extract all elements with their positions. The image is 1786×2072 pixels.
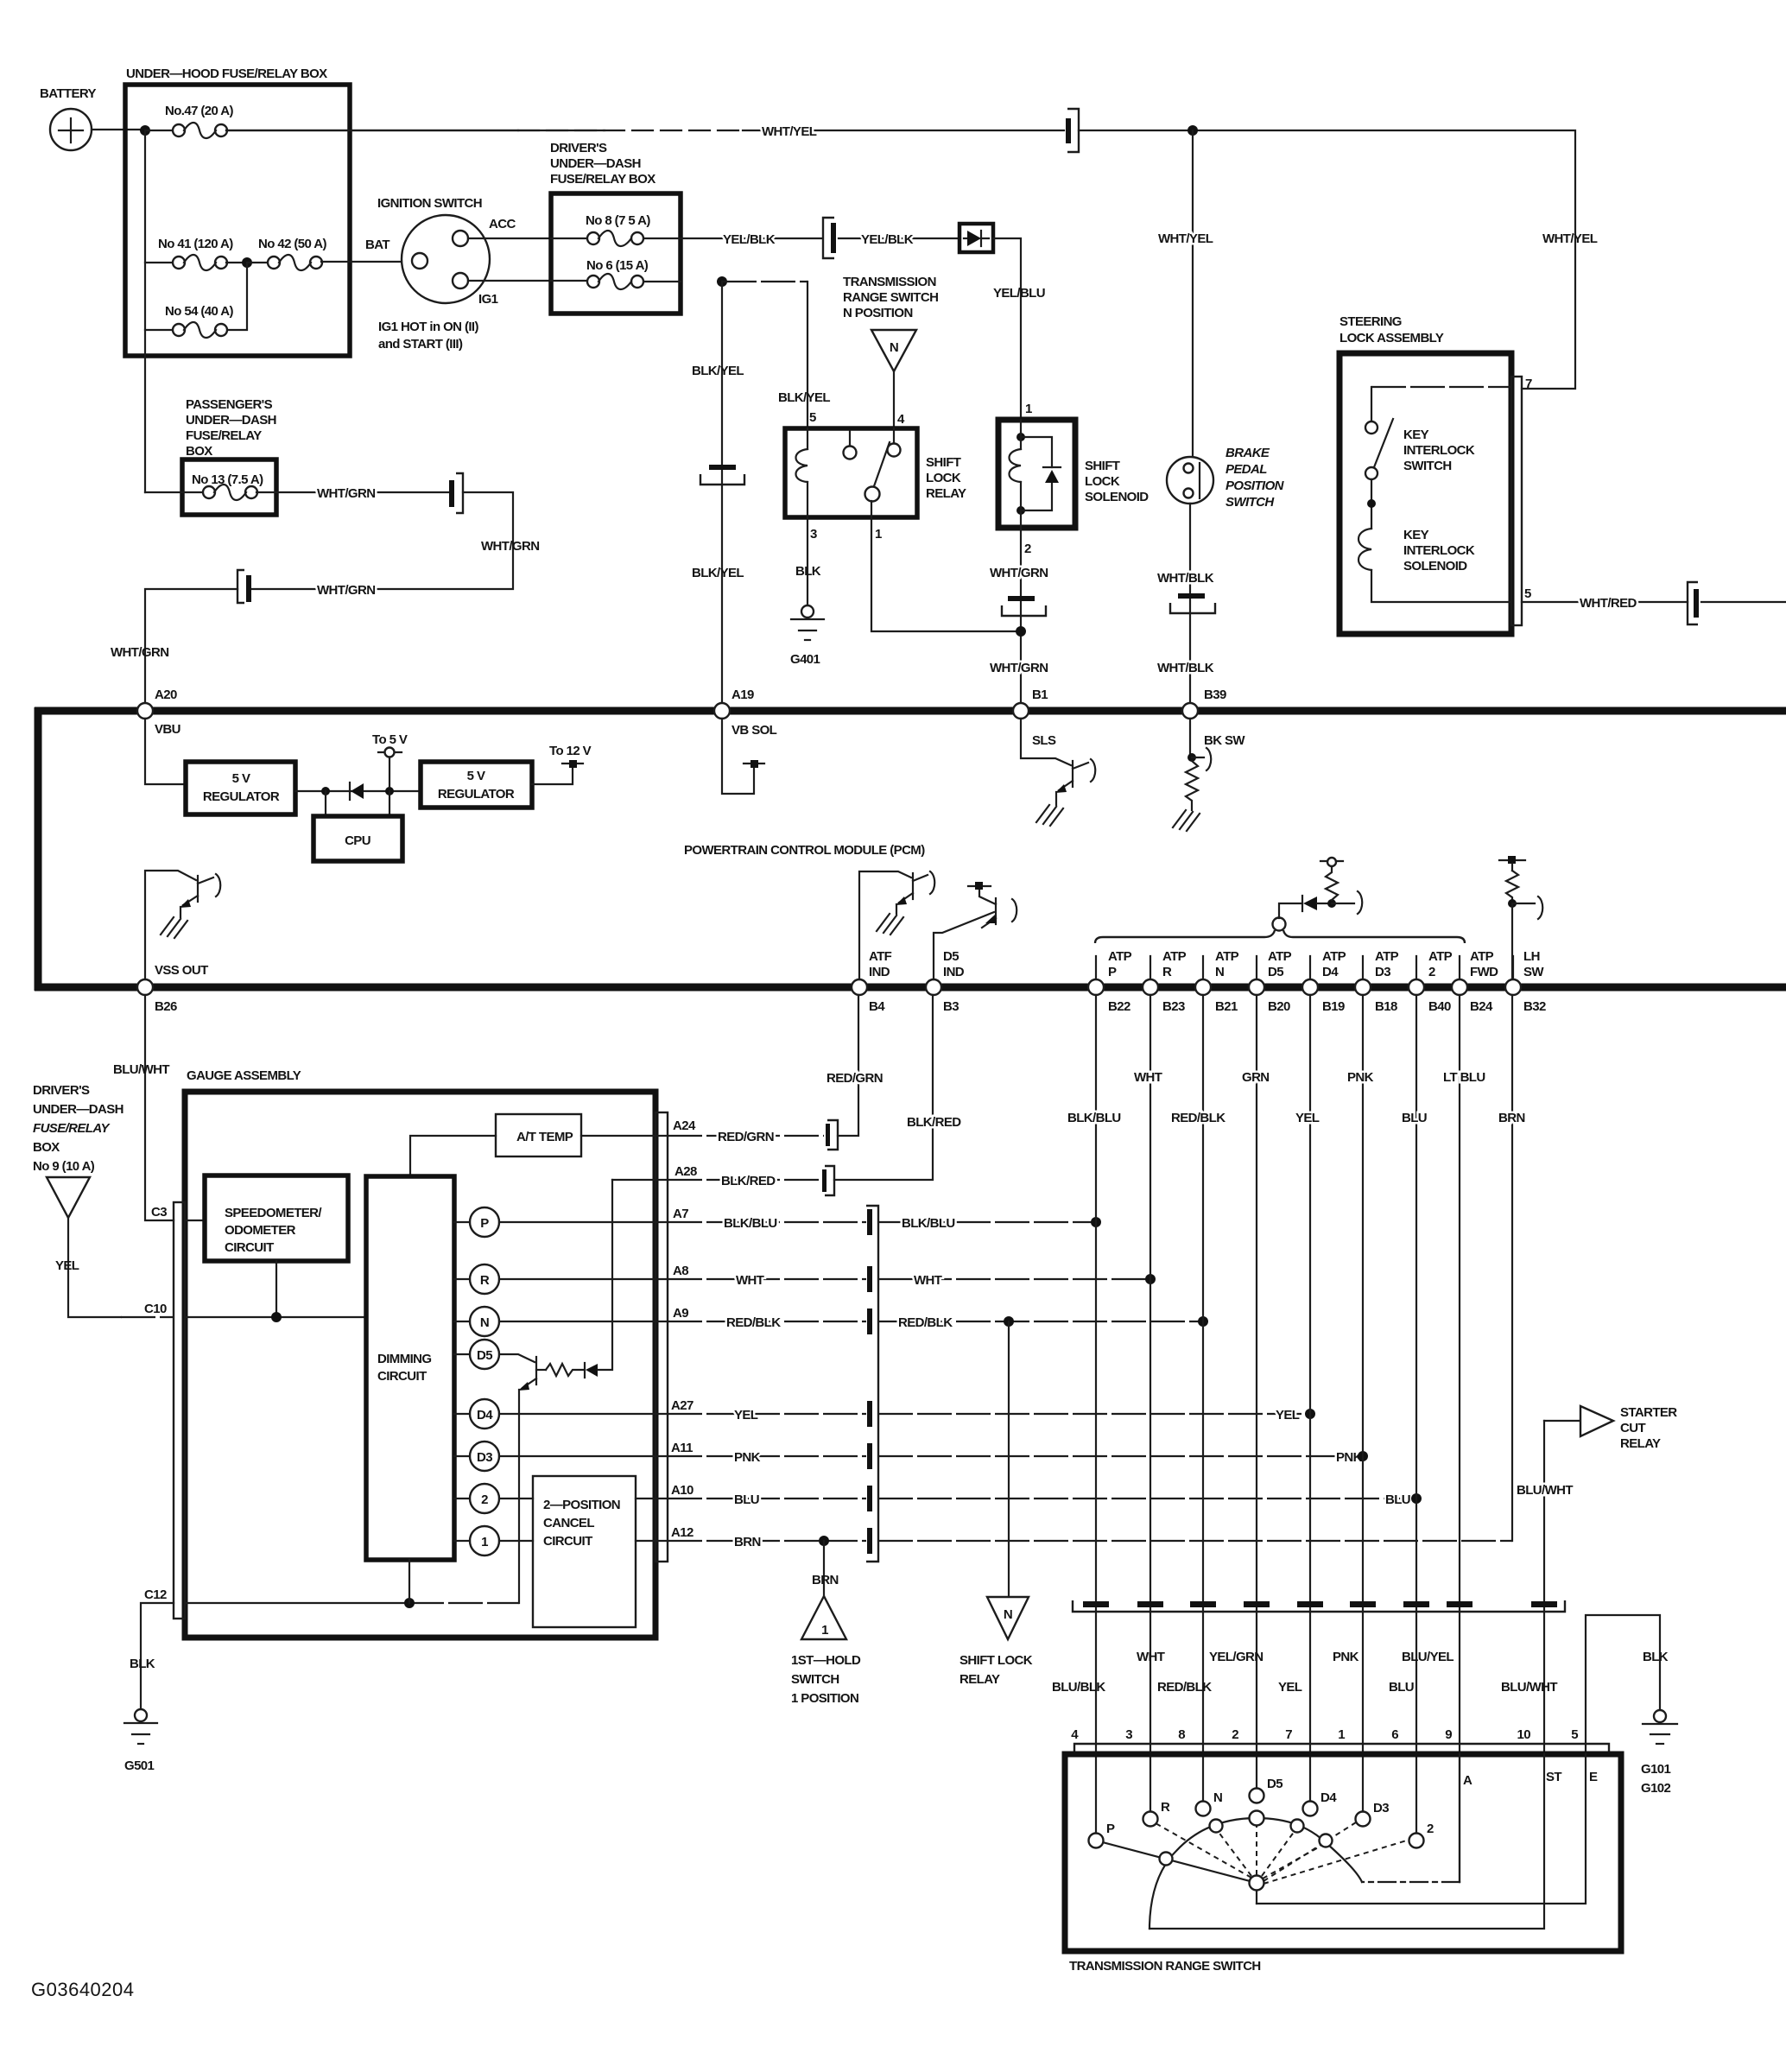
svg-text:SWITCH: SWITCH — [1403, 459, 1452, 473]
svg-text:GRN: GRN — [1242, 1070, 1270, 1085]
svg-text:ATP: ATP — [1470, 949, 1494, 964]
ATP/B2x pin nodes on lower bus — [1088, 956, 1521, 995]
wire VBU to 5V regulator — [145, 719, 186, 784]
svg-text:PNK: PNK — [1347, 1070, 1374, 1085]
shift lock relay box — [785, 428, 966, 517]
wire A24 RED/GRN row — [668, 1135, 824, 1137]
fuse No 13 (7.5 A) — [145, 472, 263, 500]
svg-text:YEL/GRN: YEL/GRN — [1209, 1650, 1263, 1664]
svg-text:SLS: SLS — [1032, 733, 1056, 748]
svg-text:A10: A10 — [671, 1483, 693, 1498]
svg-text:ATP: ATP — [1428, 949, 1453, 964]
svg-text:VSS OUT: VSS OUT — [155, 963, 208, 978]
TRS rotor arm (P position) — [1096, 1841, 1257, 1883]
PCM left edge bar — [35, 707, 42, 991]
svg-text:DIMMING: DIMMING — [377, 1352, 431, 1366]
node: junction relay pin1 / WHT-GRN — [1016, 626, 1026, 637]
wire WHT/GRN row 1 — [256, 491, 448, 493]
ground G101/G102 — [1641, 1710, 1677, 1796]
svg-text:BLU: BLU — [734, 1492, 759, 1507]
svg-text:B26: B26 — [155, 999, 177, 1014]
svg-text:INTERLOCK: INTERLOCK — [1403, 543, 1475, 558]
connector in WHT/BLK wire — [1170, 593, 1215, 613]
svg-text:8: 8 — [1178, 1727, 1185, 1742]
wire BLK/YEL to relay pin 5 — [807, 282, 808, 428]
svg-text:5: 5 — [1524, 586, 1531, 601]
svg-text:D3: D3 — [477, 1450, 492, 1465]
svg-text:WHT/GRN: WHT/GRN — [317, 486, 375, 501]
wire regulator to diode — [295, 790, 421, 792]
diode D (in-line) for shift lock — [959, 224, 993, 252]
speedometer/odometer circuit — [205, 1175, 348, 1261]
node A20 VBU — [137, 703, 153, 719]
node: IG1 junction — [717, 276, 727, 287]
TRS contact arc — [1149, 1818, 1362, 1929]
battery B+ — [40, 86, 97, 150]
svg-text:ODOMETER: ODOMETER — [225, 1223, 296, 1238]
ignition switch — [365, 196, 516, 352]
svg-text:SHIFT: SHIFT — [1085, 459, 1120, 473]
svg-text:ATP: ATP — [1215, 949, 1239, 964]
svg-text:IND: IND — [869, 965, 890, 979]
svg-text:D5: D5 — [943, 949, 959, 964]
svg-text:To 5 V: To 5 V — [372, 732, 408, 747]
connector in A28 row — [825, 1166, 834, 1195]
svg-text:YEL: YEL — [734, 1408, 758, 1423]
svg-text:RED/BLK: RED/BLK — [1171, 1111, 1225, 1125]
transistor Q2 (ATF IND driver) — [859, 871, 934, 979]
svg-text:BRN: BRN — [812, 1573, 839, 1587]
svg-text:WHT/BLK: WHT/BLK — [1157, 571, 1214, 586]
fuse No 8 (7 5 A) — [551, 213, 681, 246]
svg-text:A: A — [1463, 1773, 1472, 1788]
svg-text:7: 7 — [1285, 1727, 1292, 1742]
svg-text:D4: D4 — [1322, 965, 1339, 979]
svg-text:1: 1 — [1338, 1727, 1345, 1742]
TRS pin numbers — [1071, 1727, 1578, 1742]
svg-text:UNDER—DASH: UNDER—DASH — [186, 413, 276, 428]
node A19 VB SOL — [714, 703, 730, 719]
svg-text:BLK/BLU: BLK/BLU — [1067, 1111, 1121, 1125]
ground G501 — [124, 1709, 157, 1773]
svg-text:G101: G101 — [1641, 1762, 1671, 1777]
relay pin 4 contact — [888, 444, 901, 457]
svg-text:BK SW: BK SW — [1204, 733, 1245, 748]
wire B32 LH SW vertical — [1511, 995, 1513, 1541]
indicator D3 — [470, 1442, 499, 1471]
node B3 D5 IND — [926, 979, 941, 995]
svg-text:FUSE/RELAY: FUSE/RELAY — [186, 428, 262, 443]
svg-text:G401: G401 — [790, 652, 820, 667]
svg-text:TRANSMISSION: TRANSMISSION — [843, 275, 936, 289]
svg-text:2: 2 — [1428, 965, 1435, 979]
wire WHT/RED from pin 5 — [1522, 601, 1688, 603]
svg-text:YEL: YEL — [1295, 1111, 1320, 1125]
svg-text:BLK: BLK — [1643, 1650, 1669, 1664]
svg-text:WHT/GRN: WHT/GRN — [317, 583, 375, 598]
svg-text:WHT/RED: WHT/RED — [1580, 596, 1637, 611]
wire A12 BRN row — [668, 1540, 866, 1542]
TRS rotor common centre — [1256, 1890, 1257, 1904]
wire C12 ground row — [185, 1602, 409, 1604]
svg-text:A/T TEMP: A/T TEMP — [516, 1130, 573, 1144]
inline connector row above TRS — [1073, 1600, 1565, 1612]
svg-text:3: 3 — [1125, 1727, 1132, 1742]
svg-text:RELAY: RELAY — [926, 486, 966, 501]
fuse feed triangle (No 9) — [47, 1177, 90, 1218]
svg-text:BLK/RED: BLK/RED — [721, 1174, 776, 1188]
svg-text:UNDER—DASH: UNDER—DASH — [550, 156, 641, 171]
wire 1st-hold switch drop — [823, 1541, 825, 1596]
relay switch arm — [874, 442, 890, 486]
node: junction fuse41/42 — [226, 262, 247, 263]
connector in WHT/GRN wire — [1002, 596, 1046, 616]
svg-text:BLU/WHT: BLU/WHT — [1501, 1680, 1557, 1695]
svg-text:N: N — [1213, 1790, 1222, 1805]
wire A27 YEL row — [668, 1413, 866, 1415]
svg-text:KEY: KEY — [1403, 528, 1429, 542]
wire A7 BLK/BLU row — [668, 1221, 866, 1223]
connector in WHT/RED wire — [1688, 582, 1699, 624]
svg-text:ATP: ATP — [1162, 949, 1187, 964]
svg-text:IGNITION SWITCH: IGNITION SWITCH — [377, 196, 482, 211]
svg-text:WHT/GRN: WHT/GRN — [990, 661, 1048, 675]
5 V regulator 1 — [186, 762, 295, 814]
wire A28 BLK/RED row — [668, 1179, 820, 1181]
fuse No 6 (15 A) — [551, 258, 681, 289]
transistor Q5 (dimming) with resistor and diode — [499, 1180, 612, 1603]
indicator N — [470, 1307, 499, 1336]
svg-text:BAT: BAT — [365, 238, 389, 252]
svg-text:BLK/YEL: BLK/YEL — [692, 364, 744, 378]
svg-text:YEL/BLK: YEL/BLK — [723, 232, 776, 247]
svg-text:PEDAL: PEDAL — [1225, 462, 1267, 477]
svg-text:WHT: WHT — [736, 1273, 764, 1288]
wire C12 to G501 — [141, 1603, 174, 1709]
svg-text:BLU/YEL: BLU/YEL — [1402, 1650, 1453, 1664]
fuse No 54 (40 A) — [145, 304, 234, 338]
connector in YEL/BLK row — [823, 218, 836, 258]
svg-text:G501: G501 — [124, 1758, 155, 1773]
svg-text:IG1: IG1 — [478, 292, 498, 307]
pull-up resistor at LH SW (B32) — [1499, 856, 1542, 979]
svg-text:5 V: 5 V — [232, 771, 250, 786]
svg-text:BOX: BOX — [33, 1140, 60, 1155]
gauge assembly box — [174, 1068, 668, 1638]
svg-text:BLK/RED: BLK/RED — [907, 1115, 961, 1130]
transistor Q4 (SLS driver) — [1021, 719, 1095, 826]
connector in BLK/YEL wire — [700, 465, 744, 485]
steering lock assembly — [1339, 314, 1522, 634]
wire WHT/YEL down to brake pedal switch — [1192, 130, 1194, 457]
wire E pin from ground row — [1586, 1615, 1660, 1754]
wire ACC to driver's box — [468, 238, 551, 239]
svg-text:ACC: ACC — [489, 217, 516, 231]
svg-text:LT BLU: LT BLU — [1443, 1070, 1485, 1085]
wire WHT/BLK brake switch to B39 — [1189, 504, 1191, 703]
svg-text:No 41 (120 A): No 41 (120 A) — [158, 237, 233, 251]
connector in WHT/YEL row — [1066, 109, 1079, 152]
wire WHT/YEL top row — [226, 130, 1064, 131]
svg-text:G03640204: G03640204 — [31, 1979, 135, 2000]
wire WHT/GRN corner down — [251, 492, 513, 589]
wire colour labels on verticals — [1067, 1070, 1525, 1125]
TRS contact circles — [1089, 1777, 1434, 1891]
svg-text:D3: D3 — [1373, 1801, 1389, 1815]
svg-text:STEERING: STEERING — [1339, 314, 1402, 329]
passenger's under-dash fuse/relay box — [182, 397, 276, 515]
TRS dashed fan from common centre — [1156, 1822, 1409, 1884]
svg-text:WHT: WHT — [914, 1273, 942, 1288]
svg-text:RELAY: RELAY — [1620, 1436, 1661, 1451]
wire A28 up to B3 — [834, 995, 933, 1180]
wire BLU/WHT B26 to C3 — [145, 995, 174, 1220]
svg-text:4: 4 — [1071, 1727, 1079, 1742]
svg-text:1: 1 — [821, 1623, 828, 1638]
wire relay pin1 down to WHT/GRN junction — [871, 517, 1021, 631]
TRS wire colour labels — [1052, 1650, 1669, 1695]
relay coil — [796, 428, 808, 517]
svg-text:VB SOL: VB SOL — [731, 723, 777, 738]
svg-text:P: P — [1108, 965, 1117, 979]
svg-text:SWITCH: SWITCH — [791, 1672, 839, 1687]
svg-text:1 POSITION: 1 POSITION — [791, 1691, 858, 1706]
svg-text:IG1 HOT in ON (II): IG1 HOT in ON (II) — [378, 320, 478, 334]
svg-text:ATP: ATP — [1268, 949, 1292, 964]
svg-text:D4: D4 — [1320, 1790, 1337, 1805]
svg-text:LOCK ASSEMBLY: LOCK ASSEMBLY — [1339, 331, 1444, 345]
wire diode to solenoid pin 1 — [993, 238, 1021, 420]
svg-text:BLK/YEL: BLK/YEL — [692, 566, 744, 580]
wire BLU/WHT starter cut to TRS pin 10 — [1543, 1421, 1545, 1754]
transmission range switch box — [1065, 1744, 1621, 1974]
svg-text:D5: D5 — [477, 1348, 492, 1363]
dimming circuit box — [366, 1176, 454, 1560]
stub dimming box to C12 row — [408, 1560, 410, 1603]
svg-text:BLU: BLU — [1389, 1680, 1414, 1695]
svg-text:B40: B40 — [1428, 999, 1451, 1014]
wire solenoid pin 2 WHT/GRN down to B1 — [1020, 528, 1022, 703]
svg-text:No 6 (15 A): No 6 (15 A) — [586, 258, 649, 273]
node B4 ATF IND — [852, 979, 867, 995]
svg-text:WHT: WHT — [1134, 1070, 1162, 1085]
TRS A dash-dot link — [1362, 1881, 1460, 1883]
2-position cancel circuit box — [533, 1476, 636, 1627]
node B26 VSS OUT — [137, 979, 153, 995]
svg-text:BLU/WHT: BLU/WHT — [1517, 1483, 1573, 1498]
svg-text:YEL: YEL — [1278, 1680, 1302, 1695]
CPU — [313, 791, 402, 861]
svg-text:TRANSMISSION RANGE SWITCH: TRANSMISSION RANGE SWITCH — [1069, 1959, 1261, 1974]
svg-text:B21: B21 — [1215, 999, 1238, 1014]
node: WHT/YEL junction above brake switch — [1187, 125, 1198, 136]
svg-text:7: 7 — [1525, 377, 1532, 391]
svg-text:6: 6 — [1391, 1727, 1398, 1742]
indicator D4 — [470, 1399, 499, 1429]
shift lock solenoid box — [998, 420, 1149, 528]
svg-text:BOX: BOX — [186, 444, 212, 459]
svg-text:BLU/WHT: BLU/WHT — [113, 1062, 169, 1077]
svg-text:2: 2 — [481, 1492, 488, 1507]
svg-text:B32: B32 — [1523, 999, 1546, 1014]
connector in WHT/GRN row 2 — [237, 570, 251, 603]
driver's under-dash fuse/relay box — [550, 141, 681, 314]
A/T TEMP box — [496, 1114, 581, 1156]
svg-text:C10: C10 — [144, 1302, 167, 1316]
transistor Q1 (VSS OUT driver) — [145, 871, 220, 979]
svg-text:ATF: ATF — [869, 949, 892, 964]
diode (between regulators) — [350, 783, 364, 800]
fuse No.47 (20 A) — [145, 104, 234, 138]
svg-text:WHT: WHT — [1137, 1650, 1165, 1664]
svg-text:N: N — [1004, 1607, 1012, 1622]
node B1 SLS — [1013, 703, 1029, 719]
svg-text:CANCEL: CANCEL — [543, 1516, 594, 1530]
wire C10 row inside — [185, 1316, 366, 1318]
fuse No 41 (120 A) — [145, 237, 233, 270]
svg-text:CIRCUIT: CIRCUIT — [377, 1369, 427, 1384]
svg-text:WHT/GRN: WHT/GRN — [990, 566, 1048, 580]
relay fixed contact (center) — [844, 447, 857, 459]
svg-text:5: 5 — [1571, 1727, 1578, 1742]
svg-text:1: 1 — [875, 527, 882, 542]
svg-text:STARTER: STARTER — [1620, 1405, 1677, 1420]
svg-text:1ST—HOLD: 1ST—HOLD — [791, 1653, 861, 1668]
svg-text:A19: A19 — [731, 687, 754, 702]
PCM bus bar top (A row) — [35, 707, 1786, 715]
wire A10 BLU row — [668, 1498, 866, 1499]
svg-text:DRIVER'S: DRIVER'S — [550, 141, 607, 155]
svg-text:D5: D5 — [1268, 965, 1283, 979]
svg-text:BLU/BLK: BLU/BLK — [1052, 1680, 1105, 1695]
key interlock switch — [1365, 387, 1511, 479]
svg-text:A27: A27 — [671, 1398, 693, 1413]
wire A/T temp to dimming circuit — [410, 1136, 496, 1176]
svg-text:CPU: CPU — [345, 833, 370, 848]
svg-text:A7: A7 — [673, 1207, 688, 1221]
svg-text:BLK/YEL: BLK/YEL — [778, 390, 830, 405]
svg-text:WHT/GRN: WHT/GRN — [481, 539, 539, 554]
node: speedometer stub to C10 — [275, 1261, 277, 1317]
svg-text:A24: A24 — [673, 1118, 696, 1133]
svg-text:RED/BLK: RED/BLK — [898, 1315, 953, 1330]
svg-text:B24: B24 — [1470, 999, 1493, 1014]
svg-text:9: 9 — [1445, 1727, 1452, 1742]
To 5 V tap — [372, 732, 408, 787]
5 V regulator 2 — [421, 762, 532, 808]
solenoid internals: coil + diode loop — [1010, 420, 1061, 528]
svg-text:N: N — [480, 1315, 489, 1330]
brake pedal position switch — [1167, 446, 1285, 510]
svg-text:N: N — [1215, 965, 1224, 979]
svg-text:LOCK: LOCK — [926, 471, 961, 485]
svg-text:N: N — [890, 340, 898, 355]
relay moving contact / pin 1 — [865, 487, 880, 502]
ground G401 — [790, 605, 824, 667]
svg-text:B39: B39 — [1204, 687, 1226, 702]
wire vertical bus inside box — [144, 130, 146, 492]
svg-text:E: E — [1589, 1770, 1598, 1784]
wire C3 into box — [185, 1220, 205, 1221]
svg-text:KEY: KEY — [1403, 428, 1429, 442]
wire A8 WHT row — [668, 1278, 866, 1280]
wire YEL to C10 — [68, 1218, 121, 1317]
shift lock relay triangle — [959, 1597, 1033, 1687]
svg-text:No.47 (20 A): No.47 (20 A) — [165, 104, 234, 118]
svg-text:BRAKE: BRAKE — [1225, 446, 1270, 460]
svg-text:A11: A11 — [671, 1441, 693, 1455]
wire fuse54 right leg up to junction — [226, 263, 247, 330]
svg-text:YEL/BLK: YEL/BLK — [861, 232, 914, 247]
svg-text:FWD: FWD — [1470, 965, 1498, 979]
pull-up network with diode at ATP group — [1279, 858, 1362, 918]
resistor pulldown at B39 — [1173, 719, 1211, 831]
svg-text:2: 2 — [1024, 542, 1031, 556]
svg-text:RELAY: RELAY — [959, 1672, 1000, 1687]
svg-text:WHT/YEL: WHT/YEL — [1542, 231, 1598, 246]
svg-text:PNK: PNK — [734, 1450, 761, 1465]
svg-text:and START (III): and START (III) — [378, 337, 463, 352]
svg-text:BLU: BLU — [1402, 1111, 1427, 1125]
svg-text:RED/BLK: RED/BLK — [1157, 1680, 1212, 1695]
svg-text:GAUGE ASSEMBLY: GAUGE ASSEMBLY — [187, 1068, 301, 1083]
svg-text:ATP: ATP — [1108, 949, 1132, 964]
svg-text:10: 10 — [1517, 1727, 1531, 1742]
svg-text:WHT/GRN: WHT/GRN — [111, 645, 168, 660]
svg-text:BLK: BLK — [795, 564, 821, 579]
svg-text:WHT/YEL: WHT/YEL — [762, 124, 817, 139]
VB SOL hook to 12 V tap — [722, 719, 764, 794]
svg-text:C12: C12 — [144, 1587, 167, 1602]
svg-text:2: 2 — [1232, 1727, 1238, 1742]
svg-text:3: 3 — [810, 527, 817, 542]
svg-text:A20: A20 — [155, 687, 177, 702]
svg-text:C3: C3 — [151, 1205, 167, 1220]
svg-text:B23: B23 — [1162, 999, 1185, 1014]
svg-text:BLK/BLU: BLK/BLU — [724, 1216, 777, 1231]
wire A24 up to B4 — [838, 995, 858, 1136]
indicator D5 — [470, 1340, 499, 1369]
svg-text:WHT/YEL: WHT/YEL — [1158, 231, 1213, 246]
svg-text:BRN: BRN — [1498, 1111, 1525, 1125]
svg-text:No 13 (7.5 A): No 13 (7.5 A) — [192, 472, 263, 487]
svg-text:2: 2 — [1427, 1822, 1434, 1836]
wire WHT/GRN to A20 — [145, 589, 237, 703]
svg-text:BATTERY: BATTERY — [40, 86, 97, 101]
svg-text:A9: A9 — [673, 1306, 688, 1321]
svg-text:No 54 (40 A): No 54 (40 A) — [165, 304, 234, 319]
svg-text:FUSE/RELAY: FUSE/RELAY — [33, 1121, 111, 1136]
svg-text:VBU: VBU — [155, 722, 180, 737]
svg-text:B22: B22 — [1108, 999, 1130, 1014]
svg-text:POWERTRAIN CONTROL MODULE (PCM: POWERTRAIN CONTROL MODULE (PCM) — [684, 843, 925, 858]
svg-text:RED/GRN: RED/GRN — [826, 1071, 883, 1086]
verticals from B22..B40 to TRS — [1096, 995, 1460, 1601]
svg-text:1: 1 — [1025, 402, 1032, 416]
svg-text:CUT: CUT — [1620, 1421, 1645, 1435]
svg-text:SOLENOID: SOLENOID — [1085, 490, 1149, 504]
fuse No 42 (50 A) — [247, 237, 327, 270]
svg-text:RANGE SWITCH: RANGE SWITCH — [843, 290, 938, 305]
svg-text:INTERLOCK: INTERLOCK — [1403, 443, 1475, 458]
svg-text:RED/BLK: RED/BLK — [726, 1315, 781, 1330]
svg-text:LH: LH — [1523, 949, 1540, 964]
svg-text:SW: SW — [1523, 965, 1544, 979]
svg-text:D5: D5 — [1267, 1777, 1282, 1791]
N triangle (transmission range switch N position) — [871, 330, 916, 428]
svg-text:YEL: YEL — [1276, 1408, 1300, 1423]
svg-text:5: 5 — [809, 410, 816, 425]
